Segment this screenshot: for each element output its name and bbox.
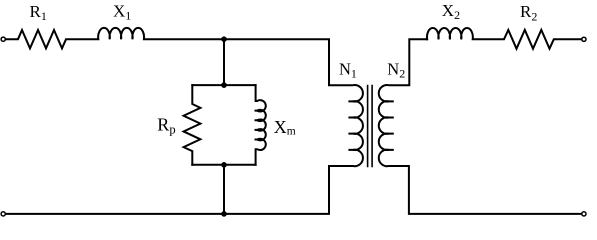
svg-text:Rp: Rp xyxy=(157,114,175,136)
svg-text:Xm: Xm xyxy=(274,117,296,138)
svg-text:N2: N2 xyxy=(387,59,405,80)
svg-text:R2: R2 xyxy=(520,2,537,23)
svg-text:X2: X2 xyxy=(442,1,460,22)
svg-text:R1: R1 xyxy=(30,2,47,23)
svg-text:N1: N1 xyxy=(339,59,357,80)
svg-text:X1: X1 xyxy=(113,1,131,22)
